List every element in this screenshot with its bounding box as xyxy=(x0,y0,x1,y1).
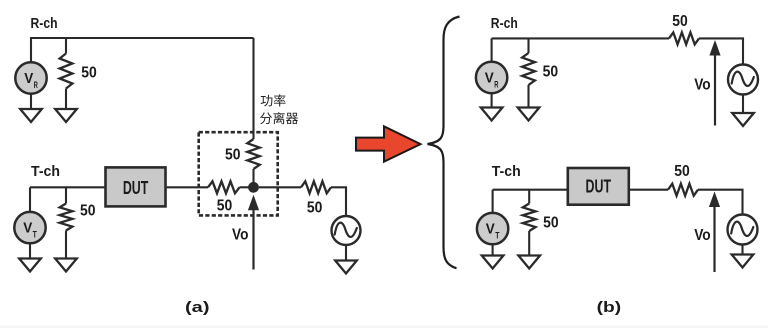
svg-text:R-ch: R-ch xyxy=(31,15,58,32)
svg-text:V: V xyxy=(485,70,494,86)
svg-text:Vo: Vo xyxy=(232,227,249,244)
svg-text:(b): (b) xyxy=(597,299,622,316)
svg-text:50: 50 xyxy=(543,64,559,81)
svg-text:R-ch: R-ch xyxy=(491,15,518,32)
svg-text:R: R xyxy=(494,79,499,89)
svg-text:50: 50 xyxy=(225,146,241,163)
svg-text:50: 50 xyxy=(307,200,323,217)
svg-text:T-ch: T-ch xyxy=(492,163,521,180)
svg-text:V: V xyxy=(24,71,33,87)
svg-text:Vo: Vo xyxy=(694,227,711,244)
svg-text:DUT: DUT xyxy=(586,177,612,197)
svg-text:Vo: Vo xyxy=(694,77,711,94)
svg-text:50: 50 xyxy=(81,65,97,82)
svg-text:(a): (a) xyxy=(185,299,210,316)
svg-text:R: R xyxy=(34,80,39,90)
svg-text:T: T xyxy=(495,231,500,241)
svg-text:T-ch: T-ch xyxy=(31,163,60,180)
svg-text:50: 50 xyxy=(672,13,688,30)
svg-text:50: 50 xyxy=(543,215,559,232)
svg-text:50: 50 xyxy=(217,198,233,215)
svg-text:50: 50 xyxy=(674,163,690,180)
svg-text:DUT: DUT xyxy=(123,178,149,198)
svg-text:V: V xyxy=(486,221,495,237)
svg-text:V: V xyxy=(23,220,32,236)
svg-text:T: T xyxy=(33,230,38,240)
svg-text:50: 50 xyxy=(80,203,96,220)
